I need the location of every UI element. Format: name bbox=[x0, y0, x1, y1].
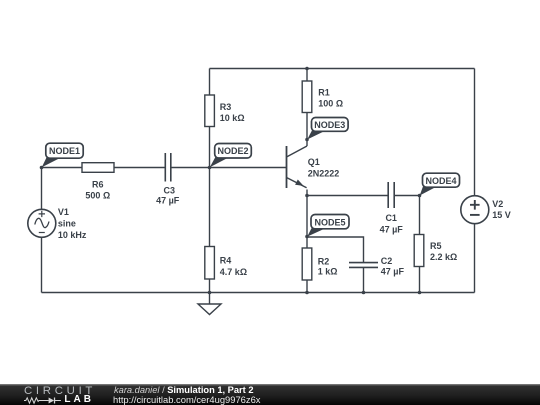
CircuitLab logo LAB bbox=[64, 394, 94, 405]
CircuitLab logo wordmark bbox=[24, 385, 104, 397]
wire emitter to NODE4 row left of C1 bbox=[307, 195, 388, 197]
junction dot NODE1 bbox=[40, 166, 44, 170]
wire right rail (top to V2) bbox=[474, 69, 476, 197]
junction dot ground rail C2 bbox=[362, 291, 366, 295]
wire C2 to bottom rail bbox=[363, 268, 365, 293]
svg-text:15 V: 15 V bbox=[492, 210, 511, 220]
wire R4 to bottom rail bbox=[209, 279, 211, 293]
svg-text:NODE1: NODE1 bbox=[49, 146, 80, 156]
svg-text:NODE2: NODE2 bbox=[217, 146, 248, 156]
wire ground stem bbox=[209, 293, 211, 305]
wire top rail to R3 bbox=[209, 69, 211, 96]
svg-text:V2: V2 bbox=[492, 199, 503, 209]
resistor R5 bbox=[414, 235, 457, 267]
junction dot top rail / R1 bbox=[305, 67, 309, 71]
node NODE5 bbox=[307, 215, 349, 237]
node NODE4 bbox=[420, 173, 460, 195]
node NODE3 bbox=[307, 118, 348, 140]
svg-text:10 kHz: 10 kHz bbox=[58, 230, 87, 240]
svg-text:R5: R5 bbox=[430, 241, 442, 251]
svg-text:NODE3: NODE3 bbox=[314, 120, 345, 130]
transistor Q1 bbox=[287, 146, 340, 188]
svg-text:NODE4: NODE4 bbox=[425, 176, 456, 186]
wire NODE1 to R6 bbox=[42, 167, 83, 169]
junction dot ground rail R5 bbox=[418, 291, 422, 295]
wire NODE4 to R5 bbox=[419, 196, 421, 235]
capacitor C1 bbox=[380, 182, 404, 235]
node NODE1 bbox=[42, 143, 83, 167]
footer line 1 bbox=[114, 385, 254, 395]
capacitor C3 bbox=[156, 153, 180, 206]
svg-text:100 Ω: 100 Ω bbox=[318, 99, 343, 109]
svg-text:V1: V1 bbox=[58, 207, 69, 217]
wire R2 to bottom rail bbox=[306, 280, 308, 293]
junction dot NODE5 bbox=[305, 235, 309, 239]
svg-text:500 Ω: 500 Ω bbox=[85, 191, 110, 201]
wire bottom rail (ground rail) bbox=[42, 292, 475, 294]
resistor R6 bbox=[82, 163, 114, 201]
node NODE2 bbox=[210, 144, 251, 168]
svg-text:R3: R3 bbox=[220, 102, 232, 112]
junction dot NODE4 bbox=[418, 194, 422, 198]
junction dot emitter bbox=[305, 194, 309, 198]
resistor R4 bbox=[205, 247, 247, 280]
wire R1 to NODE3 collector bbox=[306, 113, 308, 147]
CircuitLab logo symbols bbox=[24, 396, 65, 405]
resistor R2 bbox=[302, 248, 337, 280]
junction dot ground rail R4 bbox=[208, 291, 212, 295]
svg-text:C1: C1 bbox=[385, 213, 397, 223]
wire V1 bottom to bottom rail bbox=[41, 238, 43, 293]
wire V2 bottom to bottom rail bbox=[474, 224, 476, 293]
junction dot NODE3 bbox=[305, 138, 309, 142]
wire R3 to R4 through NODE2 bbox=[209, 127, 211, 247]
svg-text:10 kΩ: 10 kΩ bbox=[220, 113, 245, 123]
svg-text:R6: R6 bbox=[92, 180, 104, 190]
wire top rail to R1 bbox=[306, 69, 308, 82]
wire R5 to bottom rail bbox=[419, 267, 421, 293]
wire C1 to NODE4 bbox=[394, 195, 419, 197]
svg-text:NODE5: NODE5 bbox=[314, 217, 345, 227]
svg-text:R1: R1 bbox=[318, 88, 330, 98]
voltage source V2 bbox=[461, 196, 511, 224]
svg-text:2.2 kΩ: 2.2 kΩ bbox=[430, 252, 457, 262]
svg-text:47 µF: 47 µF bbox=[380, 225, 404, 235]
svg-text:47 µF: 47 µF bbox=[381, 267, 405, 277]
wire NODE5 to C2 bbox=[307, 237, 364, 263]
svg-text:R2: R2 bbox=[318, 257, 330, 267]
resistor R3 bbox=[205, 95, 245, 127]
voltage source V1 bbox=[28, 207, 87, 240]
svg-text:4.7 kΩ: 4.7 kΩ bbox=[220, 267, 247, 277]
wire NODE5 to R2 bbox=[306, 237, 308, 249]
svg-text:C3: C3 bbox=[164, 185, 176, 195]
wire C3 to Q1 base through NODE2 bbox=[171, 167, 287, 169]
ground bbox=[198, 304, 221, 315]
junction dot NODE2 bbox=[208, 166, 212, 170]
svg-text:R4: R4 bbox=[220, 256, 232, 266]
svg-text:Q1: Q1 bbox=[308, 157, 320, 167]
svg-text:2N2222: 2N2222 bbox=[308, 169, 340, 179]
svg-text:C2: C2 bbox=[381, 256, 393, 266]
footer line 2 bbox=[113, 394, 260, 405]
wire R6 to C3 bbox=[114, 167, 165, 169]
svg-text:1 kΩ: 1 kΩ bbox=[318, 267, 338, 277]
svg-text:sine: sine bbox=[58, 219, 76, 229]
wire NODE1 to V1 top bbox=[41, 168, 43, 210]
resistor R1 bbox=[302, 81, 343, 113]
svg-text:47 µF: 47 µF bbox=[156, 196, 180, 206]
wire top rail bbox=[210, 68, 475, 70]
capacitor C2 bbox=[349, 256, 404, 277]
junction dot ground rail R2 bbox=[305, 291, 309, 295]
wire emitter to NODE5 bbox=[306, 190, 308, 237]
footer bar bbox=[0, 384, 540, 405]
